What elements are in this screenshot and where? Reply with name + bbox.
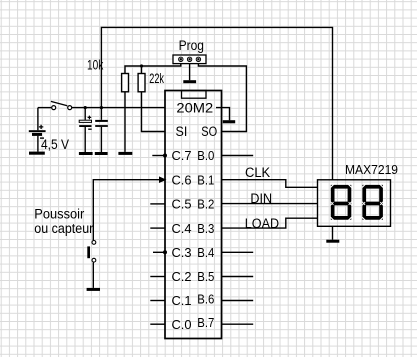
- display U2 MAX7219: [318, 180, 391, 227]
- wire CLK B.1 to display: [222, 180, 318, 188]
- svg-text:C.7: C.7: [172, 148, 192, 163]
- node junction R2 top: [140, 64, 143, 67]
- wire push button to ground: [92, 262, 94, 288]
- display digit 2: [362, 184, 383, 220]
- wire C.2 stub: [150, 276, 165, 278]
- ground U2: [326, 240, 339, 243]
- wire C.5 stub: [150, 203, 165, 205]
- capacitor C1 electrolytic: [79, 108, 92, 152]
- svg-text:SI: SI: [176, 124, 188, 139]
- wire SI line from 22k to chip: [142, 92, 166, 132]
- svg-text:Poussoir: Poussoir: [34, 206, 84, 221]
- svg-text:20M2: 20M2: [176, 100, 213, 115]
- svg-text:C.1: C.1: [172, 293, 192, 308]
- wire B.0 stub: [222, 155, 254, 157]
- svg-text:4,5 V: 4,5 V: [41, 137, 69, 152]
- wire C.6 to push button: [93, 180, 159, 241]
- wire top power rail: [101, 27, 332, 179]
- ground C1: [79, 152, 93, 155]
- switch S1: [51, 101, 72, 109]
- svg-text:C.0: C.0: [172, 317, 192, 332]
- svg-text:B.4: B.4: [197, 245, 214, 260]
- svg-text:C.6: C.6: [172, 172, 192, 187]
- IC U1 20M2 body: [165, 91, 222, 339]
- wire B.7 stub: [222, 323, 254, 325]
- wire display to ground: [332, 226, 334, 239]
- svg-text:DIN: DIN: [250, 191, 272, 206]
- resistor R1 10k: [122, 74, 129, 92]
- wire switch to V+ node and chip V+ pin: [72, 107, 165, 109]
- wire B.5 stub: [222, 276, 254, 278]
- svg-text:CLK: CLK: [245, 165, 270, 180]
- svg-text:C.5: C.5: [172, 197, 192, 212]
- wire resistor top line 10k-22k-Prog: [125, 64, 181, 74]
- display digit 1: [331, 184, 352, 220]
- svg-text:MAX7219: MAX7219: [345, 162, 398, 177]
- connector J1 Prog: [173, 55, 206, 64]
- wire C.7 stub: [152, 155, 165, 157]
- wire Prog right pin to SO: [198, 64, 246, 132]
- ground C2: [95, 152, 108, 155]
- capacitor C2: [95, 108, 108, 152]
- svg-text:10k: 10k: [87, 57, 103, 72]
- ground battery: [29, 152, 45, 155]
- node junction switch-C2-rail: [100, 106, 103, 109]
- chip notch: [182, 91, 207, 99]
- node dot C.3: [163, 250, 167, 254]
- wire B.6 stub: [222, 300, 254, 302]
- battery BT1 4,5V: [29, 108, 46, 152]
- wire LOAD B.3 to display: [222, 218, 318, 228]
- ground U1: [223, 120, 235, 123]
- svg-text:B.2: B.2: [197, 197, 214, 212]
- node junction switch-C1: [84, 106, 87, 109]
- wire B.4 stub: [222, 251, 254, 253]
- svg-text:ou capteur: ou capteur: [34, 221, 93, 236]
- svg-text:LOAD: LOAD: [245, 216, 280, 231]
- svg-text:C.4: C.4: [172, 221, 192, 236]
- svg-text:C.2: C.2: [172, 269, 192, 284]
- push button S2: [87, 241, 96, 263]
- svg-text:B.6: B.6: [197, 291, 214, 306]
- node dot C.7: [163, 154, 167, 158]
- svg-text:B.0: B.0: [197, 148, 214, 163]
- ground J1: [183, 80, 196, 83]
- svg-text:C.3: C.3: [172, 245, 192, 260]
- resistor R2 22k: [138, 74, 145, 92]
- wire battery to switch: [38, 107, 51, 109]
- svg-text:B.7: B.7: [197, 315, 214, 330]
- svg-text:B.3: B.3: [197, 221, 214, 236]
- wire Prog middle pin to ground: [189, 64, 191, 81]
- svg-text:22k: 22k: [149, 71, 164, 86]
- ground S2: [87, 288, 100, 291]
- svg-text:B.5: B.5: [197, 269, 214, 284]
- wire C.4 stub: [150, 227, 165, 229]
- svg-text:B.1: B.1: [197, 172, 214, 187]
- wire C.1 stub: [150, 300, 165, 302]
- wire R1 bottom to ground: [124, 92, 126, 152]
- wire C.0 stub: [150, 323, 165, 325]
- node arrow C.6: [159, 176, 167, 183]
- wire chip 0V pin to ground: [216, 108, 230, 121]
- svg-text:SO: SO: [201, 124, 217, 139]
- ground R1: [118, 152, 132, 155]
- wire C.3 stub: [153, 251, 165, 253]
- wire DIN B.2 to display: [222, 203, 318, 205]
- svg-text:Prog: Prog: [179, 38, 204, 53]
